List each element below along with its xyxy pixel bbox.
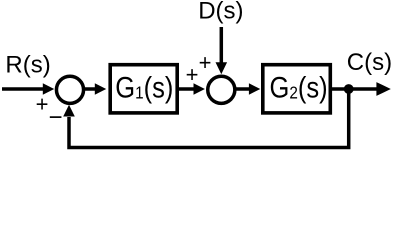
svg-text:G1(s): G1(s) [115, 70, 173, 103]
svg-text:+: + [36, 91, 49, 116]
svg-text:+: + [199, 50, 212, 75]
svg-text:+: + [186, 62, 199, 87]
svg-text:G2(s): G2(s) [270, 70, 328, 103]
svg-text:−: − [48, 104, 62, 131]
svg-text:C(s): C(s) [347, 49, 392, 76]
svg-text:D(s): D(s) [198, 0, 243, 24]
svg-text:R(s): R(s) [5, 52, 50, 79]
